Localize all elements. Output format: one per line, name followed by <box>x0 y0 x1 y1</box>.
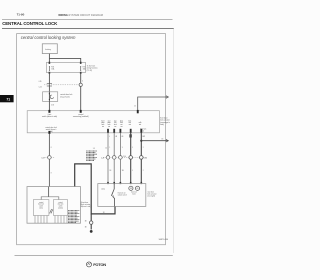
svg-text:unlk: unlk <box>139 122 142 124</box>
wire fuse F24 down <box>48 73 50 92</box>
header rule <box>2 18 173 20</box>
wire lower left down from control box <box>48 134 50 187</box>
connector row dashed line middle <box>103 156 147 158</box>
svg-text:3B: 3B <box>122 170 124 172</box>
breaker symbol <box>48 92 50 102</box>
inner box key switch right <box>54 200 68 216</box>
svg-text:1B: 1B <box>109 170 111 172</box>
wire cluster 3 down <box>119 133 121 184</box>
svg-text:25: 25 <box>134 105 136 107</box>
cluster label stack wire 1 <box>101 119 141 128</box>
svg-text:1B: 1B <box>85 227 87 229</box>
wire cluster 1 down <box>107 133 109 184</box>
svg-text:lock: lock <box>114 124 117 126</box>
inline connector ticks on left wire <box>47 83 52 85</box>
svg-text:8: 8 <box>51 147 52 149</box>
diagram frame <box>17 34 166 245</box>
svg-text:(71-12): (71-12) <box>87 70 93 72</box>
ground branch wire <box>90 214 92 230</box>
svg-text:1.5: 1.5 <box>105 147 107 149</box>
svg-text:1B: 1B <box>85 220 87 222</box>
svg-text:rear door: rear door <box>147 191 154 193</box>
svg-text:switch (driver's side): switch (driver's side) <box>42 115 58 118</box>
dark net: rear actuator loop <box>75 164 115 214</box>
connector row dashed line left <box>45 156 55 158</box>
inline connector circle on right wire <box>79 83 82 86</box>
svg-text:LB: LB <box>121 136 123 138</box>
connector on wire 1 <box>106 156 110 160</box>
connector on wire 3 <box>119 156 123 160</box>
front door lock actuator box (driver) <box>27 187 81 224</box>
svg-text:door lock: door lock <box>131 192 137 194</box>
svg-text:5: 5 <box>132 170 133 172</box>
arrow head bottom <box>166 139 168 142</box>
svg-text:0.85: 0.85 <box>51 104 54 106</box>
harness boundary dashed line <box>44 84 82 86</box>
branch to top right arrow <box>137 110 139 113</box>
svg-text:8: 8 <box>51 172 52 174</box>
pin stub fuse box bottom left <box>49 72 51 74</box>
cluster terminal pins <box>107 129 109 133</box>
bottom right arrow wire <box>141 140 168 142</box>
svg-text:71: 71 <box>6 98 10 102</box>
svg-text:lock: lock <box>102 124 105 126</box>
svg-text:Key lock on: Key lock on <box>118 192 126 194</box>
central control unit box <box>27 111 159 133</box>
svg-text:1.5: 1.5 <box>93 148 95 150</box>
motor M unlock <box>135 186 139 190</box>
svg-text:F20: F20 <box>83 67 86 69</box>
svg-text:door lock: door lock <box>58 204 64 206</box>
svg-text:relay (71-15): relay (71-15) <box>60 95 70 98</box>
svg-text:FOTON: FOTON <box>93 262 106 267</box>
svg-text:3: 3 <box>122 147 123 149</box>
rear door lock actuator box <box>98 184 146 207</box>
svg-text:lock: lock <box>108 124 111 126</box>
footer logo emblem <box>87 262 92 267</box>
wire branch bus <box>49 58 80 62</box>
pin stub fuse box bottom right <box>80 72 82 74</box>
connector on wire 2 <box>112 156 116 160</box>
arrow head top <box>166 96 168 99</box>
label block front door lock actuator (QR blob 1) <box>86 151 97 160</box>
circuit breaker box <box>43 92 58 102</box>
pin stub fuse box top left <box>49 62 51 64</box>
svg-text:S0871-09E: S0871-09E <box>159 239 169 241</box>
wire fuse F20 down <box>80 73 82 111</box>
footer rule <box>15 255 173 257</box>
scan page edge right <box>173 28 175 253</box>
svg-text:(lock): (lock) <box>101 188 105 190</box>
terminal pin at top right wire <box>80 110 82 113</box>
switch inside actuator box <box>113 184 115 189</box>
svg-text:0.85: 0.85 <box>39 81 42 83</box>
wire lock motor down (dark) <box>130 133 132 184</box>
junction dot bottom arrow <box>140 140 142 142</box>
wire battery to bus <box>48 54 50 63</box>
connector on unlock motor wire <box>140 156 144 160</box>
svg-text:18: 18 <box>103 212 105 214</box>
svg-text:71-90: 71-90 <box>17 13 25 17</box>
ground terminal dot <box>90 230 93 233</box>
svg-text:5: 5 <box>132 147 133 149</box>
inner branch <box>41 197 59 200</box>
svg-text:C-08: C-08 <box>41 157 44 159</box>
svg-text:C-10: C-10 <box>123 156 126 158</box>
svg-text:C-05: C-05 <box>39 86 42 88</box>
svg-text:battery: battery <box>45 48 51 51</box>
svg-text:C-16: C-16 <box>144 157 147 159</box>
fuse box <box>46 62 85 72</box>
connector C-08 on left wire <box>48 156 52 160</box>
pin stub fuse box top right <box>80 62 82 64</box>
fuse F20 <box>80 67 82 71</box>
connector on ground wire <box>90 221 93 224</box>
wire breaker to control box <box>48 101 50 110</box>
svg-text:CENTRAL CONTROL LOCK: CENTRAL CONTROL LOCK <box>2 21 58 26</box>
svg-text:18: 18 <box>162 139 164 141</box>
wire cluster 2 down <box>113 133 115 184</box>
fuse F24 <box>48 67 50 71</box>
svg-text:lock: lock <box>128 120 131 122</box>
svg-text:C-22: C-22 <box>101 157 104 159</box>
svg-text:central control locking system: central control locking system <box>21 35 76 40</box>
svg-text:F24: F24 <box>51 67 54 69</box>
connector on lock motor wire <box>129 156 133 160</box>
wire unlock motor down (dark) <box>140 133 142 184</box>
pin stubs under inner boxes <box>35 216 67 224</box>
svg-text:lock: lock <box>120 122 123 124</box>
svg-text:side): side) <box>160 124 164 126</box>
svg-text:door lock: door lock <box>38 204 44 206</box>
wire into switch assembly <box>48 187 50 197</box>
svg-text:connecting (antitheft): connecting (antitheft) <box>73 115 89 118</box>
svg-text:(unlock): (unlock) <box>58 208 63 210</box>
inner box key switch left <box>33 200 49 216</box>
label block dense (QR blob 2) <box>68 211 79 223</box>
battery B1 <box>42 44 57 54</box>
terminal pin bottom left <box>48 131 50 134</box>
switch blades between inner boxes <box>50 209 52 213</box>
pin stubs into actuator box <box>107 182 109 184</box>
left margin tab 71 <box>0 95 14 102</box>
svg-text:WIRING.SYSTEM CIRCUIT DIAGRAM: WIRING.SYSTEM CIRCUIT DIAGRAM <box>58 13 103 17</box>
motor M lock <box>129 186 133 190</box>
title underline <box>2 27 174 29</box>
svg-text:(lock): (lock) <box>39 208 43 210</box>
terminal pin at top left wire <box>48 110 50 113</box>
wire color label B dark mark <box>129 134 131 137</box>
